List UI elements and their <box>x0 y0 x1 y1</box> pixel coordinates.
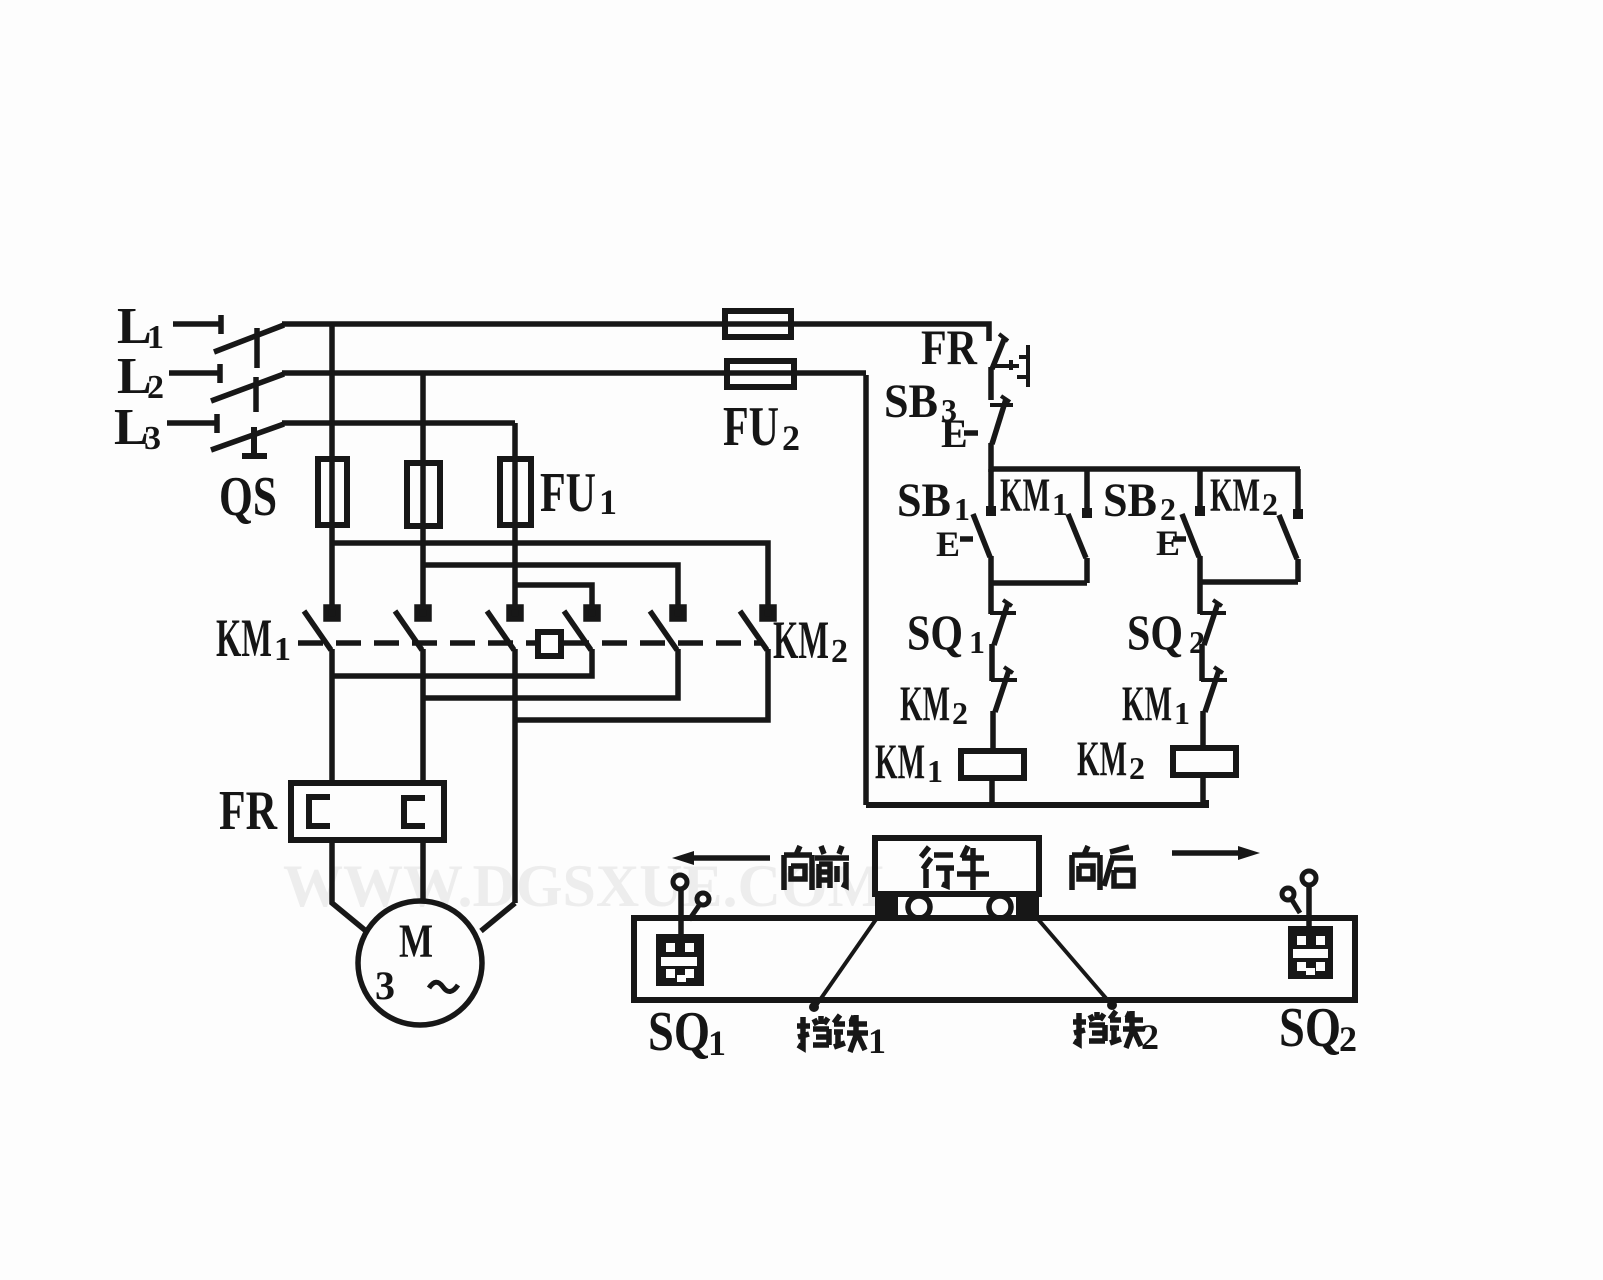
svg-text:SB: SB <box>897 474 951 527</box>
svg-text:E: E <box>936 524 960 564</box>
contactor KM2 aux NO contact <box>1279 469 1303 582</box>
wire control left rail from FU2 lower <box>863 375 869 805</box>
switch QS blade L1 <box>214 325 284 352</box>
svg-text:KM: KM <box>900 675 950 731</box>
node L1 label <box>117 298 164 356</box>
svg-text:SB: SB <box>1103 474 1157 527</box>
limit switch SQ1 trackside device <box>656 875 709 986</box>
svg-text:SQ: SQ <box>1279 997 1341 1059</box>
arrow backward (right) <box>1172 846 1260 860</box>
fuse FU1 phase A <box>318 459 347 525</box>
wire FR to motor V <box>420 840 426 902</box>
wire phase B drop <box>420 373 426 608</box>
track bed rectangle <box>634 918 1355 1000</box>
svg-text:2: 2 <box>1262 486 1278 522</box>
wire motor W diagonal <box>481 903 515 931</box>
wire KM2 coil to bottom bus <box>1200 775 1206 805</box>
wire L2 lead <box>169 364 220 383</box>
contactor KM1 main contact 1 <box>304 607 338 650</box>
label xingche (trolley) <box>921 847 954 888</box>
wire KM2 NC to KM1 coil <box>990 711 996 751</box>
contactor KM2 NC interlock contact <box>991 667 1017 712</box>
trolley pads and wheels <box>875 895 1039 918</box>
contactor KM2 main contact 2 <box>650 607 684 650</box>
wire SB1 to SQ1 <box>988 556 994 614</box>
wire L1 bus to control <box>282 324 989 341</box>
svg-text:FR: FR <box>921 319 978 375</box>
svg-text:3: 3 <box>144 420 161 457</box>
svg-text:KM: KM <box>1077 730 1127 786</box>
wire KM2-1 output crossover <box>332 649 592 676</box>
svg-text:1: 1 <box>1052 486 1068 522</box>
thermal relay FR NC contact <box>991 334 1009 369</box>
fuse FU1 phase C <box>500 459 531 525</box>
wire SB3 to branch point <box>988 443 994 472</box>
limit switch SQ2 NC contact <box>1200 600 1226 645</box>
limit switch SQ2 trackside label <box>1279 997 1357 1059</box>
wire SB2 to SQ2 <box>1197 556 1203 614</box>
label stop iron 1 (dangtie 1) <box>797 1016 829 1048</box>
svg-text:KM: KM <box>875 733 925 789</box>
contactor KM2 NC interlock label <box>900 675 968 731</box>
fuse FU2 lower <box>727 361 794 387</box>
wire crossover B to KM2 middle <box>423 565 678 608</box>
wire KM2-3 output crossover <box>515 649 768 720</box>
pushbutton SB3 NC contact <box>990 396 1013 444</box>
contactor KM2 coil label <box>1077 730 1145 786</box>
wire crossover C to KM2 left <box>515 585 592 608</box>
svg-text:SQ: SQ <box>1127 604 1183 660</box>
svg-text:1: 1 <box>954 491 970 527</box>
contactor KM2 main contact 1 <box>564 607 598 650</box>
wire KM1 NC to KM2 coil <box>1200 711 1206 748</box>
pushbutton SB1 NO contact <box>973 469 996 557</box>
svg-text:2: 2 <box>1141 1017 1159 1057</box>
wire L1 lead <box>173 315 221 334</box>
wire KM2 aux parallel bottom <box>1200 579 1298 585</box>
svg-text:KM: KM <box>773 610 829 670</box>
mechanical linkage dashed <box>298 640 762 646</box>
wire L3 lead <box>167 414 217 433</box>
thermal relay FR label <box>219 780 277 842</box>
svg-text:2: 2 <box>147 369 164 406</box>
svg-text:FU: FU <box>723 396 779 458</box>
wire control top bus <box>991 466 1300 472</box>
label stop iron 2 (dangtie 2) <box>1073 1012 1105 1044</box>
switch QS blade L2 <box>211 374 284 401</box>
arrow forward (left) <box>672 851 770 865</box>
fuse FU1 phase B <box>407 463 440 526</box>
switch QS label <box>219 466 277 528</box>
fuse FU2 label <box>723 396 800 458</box>
contactor KM1 coil label <box>875 733 943 789</box>
svg-text:E: E <box>1156 523 1180 563</box>
svg-text:1: 1 <box>274 631 291 668</box>
svg-text:1: 1 <box>969 624 985 660</box>
thermal relay FR heater element A <box>309 797 330 826</box>
motor M circle <box>358 901 482 1025</box>
wire L3 bus <box>282 420 515 426</box>
pushbutton SB2 NO contact <box>1182 469 1205 557</box>
wire KM1 coil to bottom bus <box>989 778 995 805</box>
wire L2 bus to control <box>282 370 866 376</box>
svg-text:KM: KM <box>1122 675 1172 731</box>
switch QS link L2 <box>253 377 259 412</box>
svg-text:FU: FU <box>540 462 596 524</box>
pushbutton SB3 E mark <box>941 411 968 456</box>
pushbutton SB1 E mark <box>936 524 960 564</box>
svg-text:KM: KM <box>216 608 272 668</box>
svg-text:E: E <box>941 411 968 456</box>
wire FR to SB3 <box>988 367 994 400</box>
contactor KM1 label <box>216 608 291 668</box>
contactor KM2 label <box>773 610 848 670</box>
svg-text:WWW.DGSXUE.COM: WWW.DGSXUE.COM <box>283 853 884 919</box>
thermal relay FR heater box <box>291 783 444 840</box>
thermal relay FR NC contact label <box>921 319 978 375</box>
switch QS link L1 <box>254 328 260 368</box>
wire motor line U <box>329 649 335 783</box>
label xiangqian (forward) <box>784 846 812 890</box>
contactor KM2 coil <box>1173 748 1236 775</box>
svg-text:1: 1 <box>1174 695 1190 731</box>
mechanical interlock box <box>538 632 561 656</box>
switch QS blade L3 <box>211 424 284 450</box>
wire motor line W <box>512 649 518 903</box>
svg-text:M: M <box>399 915 433 968</box>
motor M label <box>375 915 433 1008</box>
svg-text:QS: QS <box>219 466 277 528</box>
node L2 label <box>117 348 164 406</box>
pushbutton SB3 label <box>884 375 957 428</box>
svg-text:2: 2 <box>1339 1019 1357 1059</box>
pointer to stop iron 2 <box>1037 918 1117 1010</box>
pushbutton SB2 E mark <box>1156 523 1180 563</box>
svg-text:2: 2 <box>782 418 800 458</box>
wire KM1 aux parallel bottom <box>991 580 1087 586</box>
svg-text:FR: FR <box>219 780 277 842</box>
svg-text:SQ: SQ <box>907 604 963 660</box>
svg-text:2: 2 <box>1160 491 1176 527</box>
wire KM2-2 output crossover <box>423 649 678 698</box>
label xianghou (backward) <box>1072 846 1100 890</box>
contactor KM1 NC interlock label <box>1122 675 1190 731</box>
svg-text:KM: KM <box>1210 469 1260 522</box>
wire phase C drop <box>512 423 518 608</box>
pushbutton SB2 label <box>1103 474 1176 527</box>
svg-text:3: 3 <box>375 963 395 1008</box>
limit switch SQ1 label <box>907 604 985 660</box>
wire FR to motor U <box>332 840 366 931</box>
svg-text:SB: SB <box>884 375 938 428</box>
contactor KM1 main contact 3 <box>487 607 521 650</box>
svg-text:1: 1 <box>708 1023 726 1063</box>
fuse FU2 upper <box>725 311 791 337</box>
wire phase A drop <box>329 324 335 608</box>
limit switch SQ2 label <box>1127 604 1205 660</box>
svg-text:1: 1 <box>868 1021 886 1061</box>
contactor KM1 main contact 2 <box>395 607 429 650</box>
node L3 label <box>114 399 161 457</box>
svg-text:2: 2 <box>1129 750 1145 786</box>
contactor KM2 aux contact label <box>1210 469 1278 522</box>
svg-text:2: 2 <box>831 633 848 670</box>
fuse FU1 label <box>540 462 617 524</box>
svg-text:1: 1 <box>927 753 943 789</box>
wire SQ1 to KM2 NC <box>989 644 995 681</box>
wire SQ2 to KM1 NC <box>1199 644 1205 681</box>
contactor KM1 aux contact label <box>1000 469 1068 522</box>
limit switch SQ2 trackside device <box>1282 871 1333 979</box>
svg-text:2: 2 <box>952 695 968 731</box>
svg-text:KM: KM <box>1000 469 1050 522</box>
wire crossover A to KM2 right <box>332 543 768 608</box>
pushbutton SB1 label <box>897 474 970 527</box>
svg-text:SQ: SQ <box>648 1001 710 1063</box>
wire motor line V <box>420 649 426 783</box>
svg-text:1: 1 <box>599 482 617 522</box>
contactor KM2 main contact 3 <box>740 607 774 650</box>
limit switch SQ1 trackside label <box>648 1001 726 1063</box>
contactor KM1 NC interlock contact <box>1201 667 1227 712</box>
thermal relay FR heater element B <box>404 798 425 826</box>
limit switch SQ1 NC contact <box>990 600 1016 645</box>
switch QS link and handle <box>242 427 267 456</box>
trolley box <box>875 838 1039 894</box>
contactor KM1 aux NO contact <box>1068 469 1092 583</box>
wire control bottom bus <box>866 800 1206 805</box>
contactor KM1 coil <box>961 751 1024 778</box>
thermal relay FR heater hook symbol <box>1009 345 1028 387</box>
pointer to stop iron 1 <box>809 918 877 1012</box>
